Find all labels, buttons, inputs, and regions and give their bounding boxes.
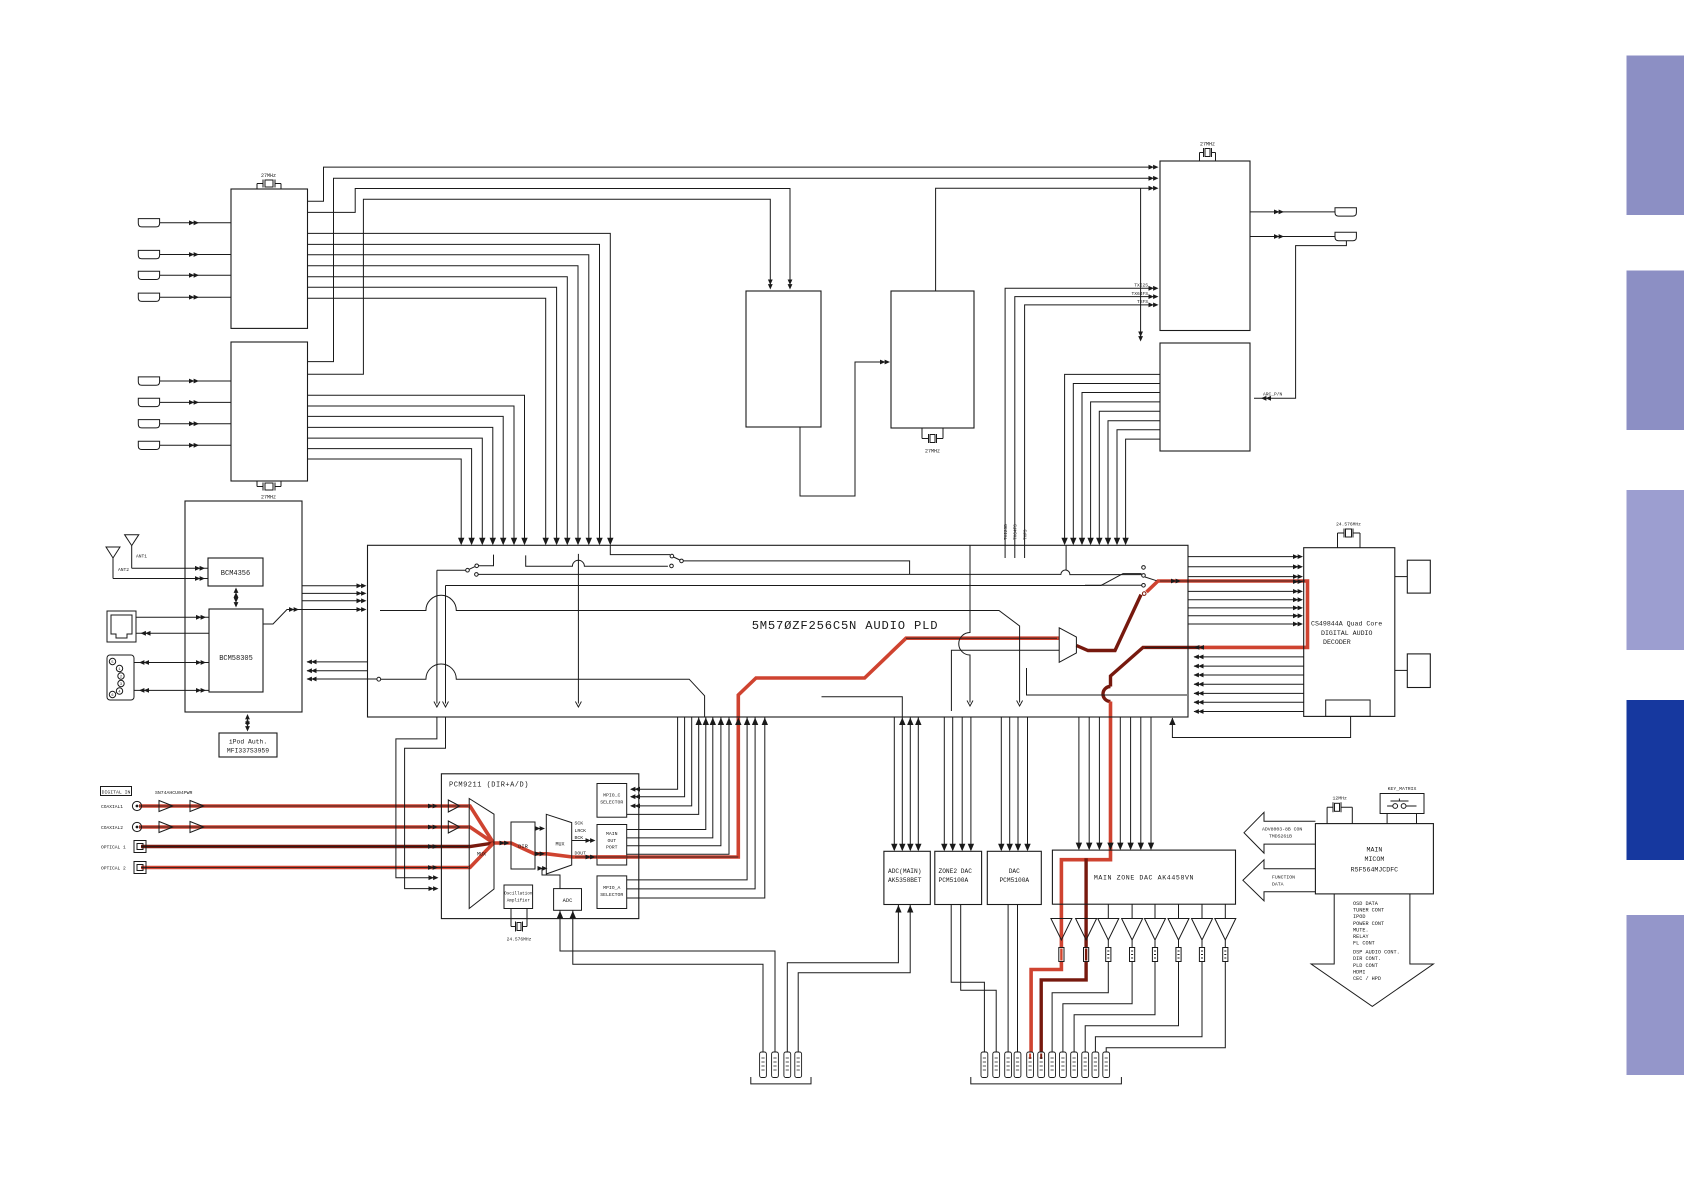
buffer pair on coaxial2 bbox=[159, 822, 204, 833]
resistor R6 bbox=[1176, 948, 1181, 962]
crystal X4 27MHz bbox=[1200, 148, 1216, 161]
box MPIO_A SELECTOR bbox=[597, 876, 627, 909]
svg-text:COAXIAL1: COAXIAL1 bbox=[101, 804, 123, 810]
svg-text:FL CONT: FL CONT bbox=[1353, 941, 1375, 947]
wire PLD to PCM left in2 bbox=[405, 717, 446, 889]
resistor R8 bbox=[1223, 948, 1228, 962]
connector J1 bbox=[138, 219, 159, 227]
svg-text:ADC: ADC bbox=[563, 898, 573, 904]
crystal X1 27MHz bbox=[257, 180, 281, 190]
connector tag P2 bbox=[772, 1052, 779, 1078]
svg-text:27MHz: 27MHz bbox=[261, 495, 276, 501]
svg-text:MAIN: MAIN bbox=[606, 831, 618, 837]
sidebar tab 2 bbox=[1627, 271, 1684, 431]
wire CS to PLD ret8 bbox=[1194, 711, 1304, 713]
svg-text:DAC: DAC bbox=[1009, 868, 1020, 875]
svg-text:4: 4 bbox=[118, 691, 120, 695]
antenna ANT1 bbox=[125, 535, 139, 569]
svg-text:27MHz: 27MHz bbox=[1200, 142, 1215, 148]
crystal X2 27MHz bbox=[257, 481, 281, 491]
wire U2 bus7 to PLD bbox=[308, 459, 462, 541]
wire maroon return into PLD down to MAIN ZONE DAC bbox=[1111, 647, 1199, 686]
wire ADC to MUX2 bbox=[542, 868, 560, 888]
wire PLD to ADCMAIN 2 bbox=[901, 717, 903, 850]
sidebar tab 1 bbox=[1627, 56, 1684, 216]
bracket left group bbox=[751, 1077, 811, 1084]
svg-text:MUX: MUX bbox=[477, 852, 486, 858]
wire ADC input net 1 bbox=[560, 910, 775, 1052]
double arrow BCM4356 to BCM58305 bbox=[235, 590, 237, 605]
mux U-PLD triangle bbox=[1059, 628, 1076, 663]
wire J1 to U1 bbox=[160, 222, 231, 224]
wire U1 out1 to HDMI TX block top bus bbox=[308, 167, 1153, 201]
svg-text:TUNER CONT: TUNER CONT bbox=[1353, 908, 1384, 914]
chip U10 DAC PCM5100A bbox=[987, 851, 1041, 904]
connector J10 HDMI out 2 bbox=[1335, 232, 1356, 240]
wire J4 to U1 bbox=[160, 296, 231, 298]
buffer U7b bbox=[448, 821, 460, 833]
wire A4 output to connector bbox=[1063, 940, 1132, 1052]
wire U2 bus3 to PLD bbox=[308, 416, 504, 541]
connector tag P4 bbox=[795, 1052, 802, 1078]
wire ADCMAIN bottom net2 bbox=[798, 905, 910, 1053]
sidebar tab 5 bbox=[1627, 915, 1684, 1075]
op-amp A5 bbox=[1145, 919, 1166, 941]
wire CS to PLD ret3 bbox=[1194, 665, 1304, 667]
wire U2 bus5 to PLD bbox=[308, 438, 483, 541]
wire PLD to DAC pins bbox=[1001, 717, 1027, 850]
wire U2 bus4 to PLD bbox=[308, 427, 493, 541]
wire MPIO_A pin1 to PLD bbox=[627, 717, 747, 880]
double arrow module to iPod Auth bbox=[247, 716, 249, 729]
wire MAIN OUT PORT pin3 to PLD bbox=[627, 717, 721, 846]
wire PLD to CS in6 bbox=[1188, 607, 1298, 609]
wire U3 to HDMI out connector 2 bbox=[1250, 236, 1335, 238]
svg-text:DIR: DIR bbox=[518, 844, 528, 850]
svg-text:DIGITAL IN: DIGITAL IN bbox=[102, 789, 131, 795]
wire PLD to PCM left in1 bbox=[396, 717, 437, 878]
box ADC bbox=[554, 889, 582, 911]
wire DAC out stub 5 bbox=[1154, 904, 1156, 918]
connector tag P10 bbox=[1038, 1052, 1045, 1078]
svg-text:SELECTOR: SELECTOR bbox=[600, 800, 623, 806]
connector J3 bbox=[138, 271, 159, 279]
wire CS to PLD ret2 bbox=[1194, 656, 1304, 658]
chip BCM58305 bbox=[209, 609, 263, 692]
chip U8 ADC(MAIN) AK5358BET bbox=[884, 851, 930, 904]
wire PLD return2 to module bbox=[307, 670, 368, 672]
connector box right 1 bbox=[1407, 560, 1430, 593]
wire CS to PLD ret6 bbox=[1194, 692, 1304, 694]
wire maroon mux output to selector switch bbox=[1076, 595, 1141, 651]
wire thin dark cores on red runs bbox=[139, 581, 1305, 868]
crystal X7 12MHz bbox=[1327, 802, 1352, 823]
wire ZONE2 out2 bbox=[961, 905, 997, 1053]
wire internal stubs top TX bbox=[1005, 545, 1066, 570]
svg-text:iPod Auth.: iPod Auth. bbox=[229, 739, 267, 746]
arrow red DOUT into PLD bbox=[735, 718, 741, 726]
svg-text:MPIO_C: MPIO_C bbox=[603, 793, 620, 799]
connector tag P6 bbox=[993, 1052, 1000, 1078]
op-amp A6 bbox=[1168, 919, 1189, 941]
wire MPIO_C in3 bbox=[631, 717, 692, 806]
chip U11 MAIN ZONE DAC AK4458VN bbox=[1052, 850, 1235, 904]
svg-text:ADC(MAIN): ADC(MAIN) bbox=[888, 868, 921, 875]
svg-text:5M57ØZF256C5N AUDIO PLD: 5M57ØZF256C5N AUDIO PLD bbox=[752, 619, 939, 633]
svg-text:TX64FS: TX64FS bbox=[1131, 291, 1148, 297]
bracket right group bbox=[971, 1077, 1122, 1084]
connector tag P5 bbox=[981, 1052, 988, 1078]
wire red inside PLD from bottom to mux U-PLD bbox=[738, 638, 1059, 716]
block U2 bbox=[231, 342, 308, 481]
wire red OPTICAL2 to PCM9211 MUX bbox=[141, 843, 494, 868]
connector tag P14 bbox=[1082, 1052, 1089, 1078]
svg-text:6: 6 bbox=[111, 694, 113, 698]
connector box right 2 bbox=[1407, 654, 1430, 688]
wire internal vertical V1 to SW1 bbox=[437, 570, 466, 703]
svg-text:HDMI: HDMI bbox=[1353, 969, 1365, 975]
svg-text:BCM58305: BCM58305 bbox=[219, 655, 253, 663]
arrow red DOUT into port bbox=[586, 855, 596, 860]
box MPIO_C SELECTOR bbox=[597, 784, 627, 818]
op-amp A2 bbox=[1076, 919, 1097, 941]
wire internal ADC main link bbox=[822, 697, 903, 717]
wire PLD to ADCMAIN 1 bbox=[893, 717, 895, 850]
svg-text:Amplifier: Amplifier bbox=[507, 899, 531, 904]
wire red selector switch to CS49844A and return loop bbox=[1147, 581, 1308, 647]
connector J8 bbox=[138, 441, 159, 449]
wire J7 to U2 bbox=[160, 423, 231, 425]
wire ANT2 to BCM4356 bbox=[113, 578, 208, 580]
resistor R3 bbox=[1106, 948, 1111, 962]
wire MPIO_C out4 bbox=[627, 717, 699, 814]
box Oscillation Amplifier bbox=[504, 885, 533, 909]
switch SW3 selector at PLD right edge bbox=[1142, 566, 1146, 587]
arrow into DIR bbox=[500, 841, 510, 846]
svg-text:ADV8003-8B CON: ADV8003-8B CON bbox=[1262, 827, 1302, 833]
op-amp A7 bbox=[1192, 919, 1213, 941]
wire U1 bus3 to PLD bbox=[308, 255, 589, 541]
svg-text:IPOD: IPOD bbox=[1353, 914, 1365, 920]
wire DAC out stub 8 bbox=[1224, 904, 1226, 918]
wire internal bus L679 with hop and drop bbox=[377, 677, 381, 681]
wire mux input line bbox=[951, 650, 1059, 711]
wire CS to PLD ret4 bbox=[1194, 674, 1304, 676]
block arrow FUNCTION DATA bbox=[1243, 860, 1316, 901]
wire U4 pin3 to PLD bbox=[1082, 393, 1160, 542]
svg-text:PORT: PORT bbox=[606, 845, 618, 851]
svg-text:TMDS261B: TMDS261B bbox=[1269, 834, 1292, 840]
wire U4 pin2 to PLD bbox=[1073, 384, 1160, 542]
wire RJ45 to BCM58305 bbox=[136, 616, 209, 618]
svg-text:LRCK: LRCK bbox=[575, 828, 587, 834]
wire U2 bus1 to PLD bbox=[308, 395, 525, 541]
connector tag P1 bbox=[760, 1052, 767, 1078]
svg-text:ARC_P/N: ARC_P/N bbox=[1263, 392, 1283, 398]
wire connector to BCM58305 line2 bbox=[134, 689, 209, 691]
wire U4 pin8 to PLD bbox=[1126, 439, 1160, 541]
block U3 HDMI TX bbox=[1160, 161, 1250, 331]
wire A5 output to connector bbox=[1074, 940, 1155, 1052]
svg-text:27MHz: 27MHz bbox=[261, 173, 276, 179]
wire module to PLD sig1 bbox=[302, 585, 364, 587]
chip U7 PCM9211 bbox=[441, 774, 638, 919]
wire A7 output to connector bbox=[1095, 940, 1202, 1052]
wire U2 out2 to video box A bbox=[308, 199, 771, 374]
svg-text:DATA: DATA bbox=[1272, 882, 1284, 888]
svg-text:FUNCTION: FUNCTION bbox=[1272, 875, 1295, 881]
connector KEY_MATRIX bbox=[1380, 794, 1424, 814]
wire ADC input net 2 bbox=[573, 910, 763, 1052]
connector tag P13 bbox=[1071, 1052, 1078, 1078]
wire MAIN OUT PORT pin2 to PLD bbox=[627, 717, 713, 838]
buffer U7a bbox=[448, 800, 460, 812]
wire internal right lower line bbox=[1027, 668, 1188, 695]
wire long select line from BCM input bbox=[446, 574, 1142, 586]
mux MUX1 bbox=[469, 799, 494, 909]
wire PLD return3 to module bbox=[307, 678, 377, 680]
svg-text:24.576MHz: 24.576MHz bbox=[1336, 522, 1361, 528]
svg-text:CS49844A Quad Core: CS49844A Quad Core bbox=[1311, 621, 1382, 628]
wire stub short bbox=[1085, 584, 1142, 586]
svg-text:KEY_MATRIX: KEY_MATRIX bbox=[1388, 786, 1417, 792]
box A video processor bbox=[746, 291, 821, 427]
buffer pair on coaxial1 bbox=[159, 801, 204, 812]
wire TX64FS net bbox=[1015, 297, 1152, 546]
wire U4 pin5 to PLD bbox=[1099, 411, 1160, 541]
wire A8 output to connector bbox=[1106, 940, 1225, 1052]
wire PLD to CS in1 bbox=[1188, 556, 1298, 558]
wire red PLD to MAIN ZONE DAC and AOUT1 chain to connector bbox=[1031, 702, 1110, 1053]
wire MAIN OUT PORT pin1 to PLD bbox=[627, 717, 706, 830]
wire ARC_P/N return from connector 2 to ARC block bbox=[1254, 241, 1346, 399]
switch SW2 cluster bbox=[670, 554, 684, 567]
connector tag P11 bbox=[1049, 1052, 1056, 1078]
wire DAC out1 bbox=[1007, 905, 1009, 1053]
wire SW2 top stub from PLD edge bbox=[610, 545, 670, 554]
arrows digital in into PCM9211 bbox=[428, 804, 438, 809]
chip BCM4356 bbox=[208, 558, 263, 586]
wire MPIO_C in1 bbox=[631, 717, 678, 789]
svg-text:PLD CONT: PLD CONT bbox=[1353, 963, 1378, 969]
wire A6 output to connector bbox=[1085, 940, 1178, 1052]
mux MUX2 bbox=[546, 814, 571, 874]
block U1 bbox=[231, 189, 308, 328]
crystal X3 27MHz below box B bbox=[922, 428, 943, 443]
label DIGITAL IN boxed bbox=[101, 787, 132, 796]
svg-text:12MHz: 12MHz bbox=[1332, 796, 1347, 802]
chip U9 ZONE2 DAC PCM5100A bbox=[935, 851, 982, 904]
wire BCM58305 diagonal out to PLD sig4 bbox=[263, 610, 364, 625]
wire MPIO_C in2 bbox=[631, 717, 685, 797]
svg-text:MAIN: MAIN bbox=[1366, 847, 1382, 854]
svg-text:COAXIAL2: COAXIAL2 bbox=[101, 825, 123, 831]
svg-text:PCM9211 (DIR+A/D): PCM9211 (DIR+A/D) bbox=[449, 782, 529, 790]
svg-text:Oscillation: Oscillation bbox=[504, 892, 533, 897]
svg-text:DSP AUDIO CONT.: DSP AUDIO CONT. bbox=[1353, 950, 1400, 956]
wire CS to PLD ret5 bbox=[1194, 683, 1304, 685]
chip U6 CS49844A bbox=[1304, 548, 1395, 717]
wire U4 pin1 to PLD bbox=[1065, 374, 1160, 541]
arrow on red line into CS bbox=[1293, 579, 1303, 584]
resistor R7 bbox=[1199, 948, 1204, 962]
wire U1 out2 to video box A bbox=[308, 189, 791, 285]
wire U1 bus5 to PLD bbox=[308, 277, 568, 541]
wire PLD to CS in8 bbox=[1188, 623, 1298, 625]
sidebar tab 4 bbox=[1627, 700, 1684, 860]
connector J4 bbox=[138, 293, 159, 301]
switch SW1 cluster bbox=[466, 564, 479, 576]
wire CS to box right 2 bbox=[1395, 669, 1408, 671]
wire PLD to CS in7 bbox=[1188, 615, 1298, 617]
op-amp A1 bbox=[1051, 919, 1072, 941]
connector LAN RJ45 bbox=[107, 611, 136, 642]
wire CS port to PLD bottom bbox=[1172, 716, 1350, 737]
svg-text:TXFS: TXFS bbox=[1137, 299, 1148, 305]
wire DAC out stub 3 bbox=[1107, 904, 1109, 918]
connector OPTICAL 1 bbox=[134, 841, 146, 853]
op-amp A8 bbox=[1215, 919, 1236, 941]
svg-text:24.576MHz: 24.576MHz bbox=[507, 937, 532, 943]
wire box B top to y188 bus and ARC branch bbox=[936, 188, 1152, 337]
connector COAXIAL2 bbox=[132, 822, 141, 831]
svg-text:OPTICAL 1: OPTICAL 1 bbox=[101, 845, 126, 851]
wire red COAXIAL1 to PCM9211 MUX bbox=[139, 806, 494, 843]
svg-text:ANT1: ANT1 bbox=[136, 554, 147, 560]
wire J5 to U2 bbox=[160, 380, 231, 382]
svg-text:MPIO_A: MPIO_A bbox=[603, 885, 620, 891]
svg-text:DECODER: DECODER bbox=[1323, 639, 1351, 646]
wire PLD to CS in3 bbox=[1188, 576, 1298, 578]
wire DAC out stub 4 bbox=[1131, 904, 1133, 918]
svg-text:3: 3 bbox=[120, 683, 122, 687]
connector tag P3 bbox=[784, 1052, 791, 1078]
wire DIR to MUX2 bbox=[535, 828, 541, 830]
wire maroon AOUT2 chain to connector bbox=[1041, 858, 1086, 1052]
svg-text:2: 2 bbox=[120, 676, 122, 680]
svg-text:RELAY: RELAY bbox=[1353, 934, 1369, 940]
op-amp A4 bbox=[1122, 919, 1143, 941]
arrow on red return at PLD bbox=[1194, 645, 1204, 650]
svg-text:DIR CONT.: DIR CONT. bbox=[1353, 956, 1381, 962]
wire MAIN OUT PORT pin4 to PLD bbox=[627, 717, 729, 854]
wire J2 to U1 bbox=[160, 254, 231, 256]
wire U4 pin4 to PLD bbox=[1091, 402, 1160, 541]
wire stub line with hop to SW2 bbox=[526, 555, 668, 566]
block arrow control signals down bbox=[1311, 894, 1433, 1007]
wire SW2 output to selector line bbox=[683, 561, 1141, 575]
connector tag P7 bbox=[1005, 1052, 1012, 1078]
svg-text:MUX: MUX bbox=[555, 842, 564, 848]
svg-text:OPTICAL 2: OPTICAL 2 bbox=[101, 866, 126, 872]
connector tag P12 bbox=[1060, 1052, 1067, 1078]
svg-text:TX64FS: TX64FS bbox=[1014, 524, 1019, 540]
wire SW1 top stub bbox=[479, 555, 494, 566]
svg-text:TXI2SB: TXI2SB bbox=[1004, 524, 1009, 540]
connector USB/iPod pins bbox=[107, 655, 134, 700]
connector J5 bbox=[138, 377, 159, 385]
arrow red into MUX2 bbox=[535, 851, 545, 856]
arrow on red line at switch bbox=[1171, 579, 1181, 584]
wire U1 bus7 to PLD bbox=[308, 298, 546, 541]
block U4 bbox=[1160, 343, 1250, 451]
wire U2 bus2 to PLD bbox=[308, 406, 515, 541]
connector J2 bbox=[138, 250, 159, 258]
wire PLD to CS in5 bbox=[1188, 599, 1298, 601]
connector OPTICAL 2 bbox=[134, 862, 146, 874]
wire U2 bus6 to PLD bbox=[308, 449, 472, 541]
wire TXFS net bbox=[1025, 305, 1152, 545]
module outer box bbox=[185, 501, 302, 712]
crystal X6 24.576MHz bbox=[511, 909, 527, 932]
svg-text:AK5358BET: AK5358BET bbox=[888, 877, 922, 884]
sidebar tab 3 bbox=[1627, 490, 1684, 650]
connector J7 bbox=[138, 420, 159, 428]
port box on CS bottom bbox=[1326, 700, 1370, 716]
svg-text:R5F564MJCDFC: R5F564MJCDFC bbox=[1351, 867, 1399, 874]
wire module to PLD sig3 bbox=[302, 600, 364, 602]
antenna ANT2 bbox=[106, 547, 120, 579]
svg-text:CEC / HPD: CEC / HPD bbox=[1353, 976, 1381, 982]
wire U1 bus1 to PLD bbox=[308, 233, 611, 541]
wire U1 bus2 to PLD bbox=[308, 244, 600, 541]
svg-text:OUT: OUT bbox=[607, 838, 616, 844]
resistor R4 bbox=[1130, 948, 1135, 962]
svg-text:MFI337S3959: MFI337S3959 bbox=[227, 748, 269, 755]
wire U2 out1 to HDMI TX top bus bbox=[308, 178, 1153, 361]
wire CS to PLD ret7 bbox=[1194, 701, 1304, 703]
wire red DOUT from PCM9211 through DIR MUX MAIN OUT PORT to PLD bottom bbox=[494, 716, 739, 857]
wire J8 to U2 bbox=[160, 444, 231, 446]
wire DAC out stub 6 bbox=[1178, 904, 1180, 918]
svg-text:TXI2S: TXI2S bbox=[1134, 283, 1148, 289]
svg-text:MAIN ZONE DAC AK4458VN: MAIN ZONE DAC AK4458VN bbox=[1094, 875, 1194, 882]
wire SW1 bottom output to selector junction bbox=[478, 573, 909, 575]
connector J9 HDMI out 1 bbox=[1335, 208, 1356, 216]
svg-text:PCM5100A: PCM5100A bbox=[939, 877, 969, 884]
chip U12 MAIN MICOM bbox=[1315, 824, 1433, 894]
wire internal vertical V3 with hop bbox=[959, 545, 970, 702]
connector J6 bbox=[138, 398, 159, 406]
block arrow ADV8003-8B CON TMDS261B bbox=[1244, 812, 1315, 853]
wire MPIO_A pin3 to PLD bbox=[627, 717, 765, 898]
connector tag P15 bbox=[1092, 1052, 1099, 1078]
connector tag P8 bbox=[1014, 1052, 1021, 1078]
svg-text:5: 5 bbox=[111, 661, 113, 665]
wire U1 bus6 to PLD bbox=[308, 287, 557, 541]
svg-text:POWER CONT: POWER CONT bbox=[1353, 921, 1384, 927]
wire red DOUT through port bbox=[597, 855, 627, 859]
wire maroon hop over line bbox=[1103, 687, 1110, 702]
svg-text:MUTE.: MUTE. bbox=[1353, 927, 1369, 933]
wire U1 bus4 to PLD bbox=[308, 266, 579, 541]
connector COAXIAL1 bbox=[132, 801, 141, 810]
wire PLD to MZD pins bbox=[1079, 717, 1151, 849]
svg-text:SN74AHCU04PWR: SN74AHCU04PWR bbox=[155, 790, 193, 796]
box iPod Auth MFI337S3959 bbox=[219, 733, 277, 757]
svg-text:DIGITAL AUDIO: DIGITAL AUDIO bbox=[1321, 630, 1372, 637]
crystal X5 24.576MHz bbox=[1338, 529, 1361, 548]
svg-text:ZONE2 DAC: ZONE2 DAC bbox=[939, 868, 973, 875]
wire DAC out stub 7 bbox=[1201, 904, 1203, 918]
box DIR bbox=[511, 822, 535, 869]
wire connector to BCM58305 line1 bbox=[134, 662, 209, 664]
svg-text:OSD DATA: OSD DATA bbox=[1353, 901, 1379, 907]
connector tag P16 bbox=[1103, 1052, 1110, 1078]
wire ANT1 to BCM4356 bbox=[132, 567, 208, 569]
wire MUX2 BCK to MAIN OUT PORT bbox=[572, 840, 591, 842]
wire ADCMAIN bottom net1 bbox=[787, 905, 898, 1053]
